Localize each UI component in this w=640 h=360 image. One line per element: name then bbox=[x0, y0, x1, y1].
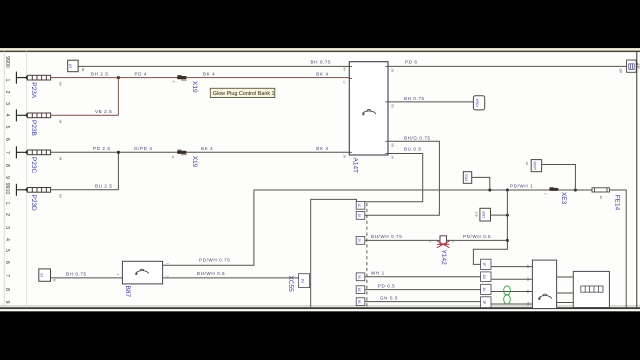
pin box 8S XC55 bbox=[356, 298, 365, 306]
svg-text:1B: 1B bbox=[526, 290, 530, 294]
pin box 5S XC55 bbox=[356, 273, 365, 281]
wire PD/WH 0.5 bbox=[447, 239, 508, 241]
diagram background bbox=[0, 48, 640, 311]
wire BH 0.75 top bbox=[78, 65, 349, 67]
svg-text:S015: S015 bbox=[481, 211, 485, 219]
svg-text:1M: 1M bbox=[619, 68, 623, 73]
svg-text:4: 4 bbox=[4, 238, 10, 241]
svg-text:FE14: FE14 bbox=[614, 195, 621, 211]
svg-text:32B: 32B bbox=[474, 212, 478, 217]
top letterbox bar bbox=[0, 0, 640, 48]
svg-text:1M: 1M bbox=[482, 274, 486, 279]
wire BU 2.5 row D bbox=[51, 189, 119, 191]
svg-text:PD 2.5: PD 2.5 bbox=[93, 146, 111, 151]
A14T pin ticks left bbox=[349, 66, 388, 153]
node glow plug C feed bbox=[26, 150, 30, 154]
svg-text:5: 5 bbox=[4, 249, 10, 252]
svg-text:P23C: P23C bbox=[30, 157, 37, 174]
svg-text:VB 2.5: VB 2.5 bbox=[95, 109, 112, 114]
node main junction 1 bbox=[488, 189, 491, 192]
svg-text:11: 11 bbox=[171, 156, 175, 159]
ECU A14T bbox=[349, 62, 388, 155]
splice W005 bbox=[531, 160, 541, 172]
wire relay to connector 3 bbox=[557, 302, 574, 304]
wire VB 2.5 row B bbox=[51, 114, 119, 116]
glow plug P23C bbox=[27, 150, 50, 155]
svg-text:6: 6 bbox=[4, 261, 10, 264]
wire PD/WH 0.75 bbox=[163, 190, 254, 265]
svg-text:3: 3 bbox=[4, 226, 10, 229]
svg-text:PD 6: PD 6 bbox=[405, 60, 418, 65]
svg-text:1M: 1M bbox=[59, 156, 63, 161]
svg-text:BH/WH 0.75: BH/WH 0.75 bbox=[371, 234, 402, 239]
wire BH/WH 0.5 bbox=[163, 277, 299, 279]
connector block bottom right bbox=[573, 271, 609, 307]
wire BH 2.5 / PD 4 / BK 4 row A bbox=[51, 78, 350, 116]
svg-text:2B: 2B bbox=[391, 69, 395, 73]
relay module bottom right bbox=[532, 260, 556, 308]
svg-text:3B: 3B bbox=[526, 277, 530, 281]
svg-text:1: 1 bbox=[4, 79, 10, 82]
splice W004 bbox=[473, 96, 484, 110]
svg-text:9: 9 bbox=[4, 176, 10, 179]
frame bottom faint line bbox=[0, 305, 640, 308]
svg-text:W005: W005 bbox=[533, 162, 537, 171]
connector XC55 dashed line bbox=[366, 203, 368, 307]
glow plug P23D bbox=[27, 188, 50, 193]
ground terminal P23C bbox=[16, 146, 27, 158]
wire PD 2.5 / G-PD 4 / BK 4 row C bbox=[51, 152, 350, 190]
svg-text:1M: 1M bbox=[59, 194, 63, 199]
svg-text:8S: 8S bbox=[357, 300, 361, 304]
pin box 1M XC55 left bbox=[299, 274, 310, 288]
tooltip Glow Plug Control Bank 1 bbox=[210, 88, 274, 97]
node main junction 3 bbox=[574, 189, 577, 192]
svg-text:B87: B87 bbox=[124, 286, 131, 298]
pin box 6S XC55 bbox=[356, 286, 365, 294]
svg-text:8: 8 bbox=[4, 288, 10, 291]
ground terminal P23D bbox=[16, 184, 27, 196]
svg-text:6S: 6S bbox=[357, 288, 361, 292]
wire BH/G 0.75 bbox=[365, 141, 440, 215]
svg-text:1N: 1N bbox=[343, 154, 347, 158]
frame top cream band bbox=[0, 48, 640, 50]
svg-text:P23D: P23D bbox=[30, 195, 37, 212]
svg-text:S013: S013 bbox=[464, 174, 468, 182]
svg-text:2S: 2S bbox=[357, 238, 361, 242]
ground terminal P23A bbox=[16, 72, 27, 84]
svg-text:BK 4: BK 4 bbox=[201, 146, 213, 151]
wire WH 1 bbox=[365, 276, 481, 278]
wire relay to connector 1 bbox=[557, 276, 574, 278]
svg-text:BH/WH 0.5: BH/WH 0.5 bbox=[197, 271, 225, 276]
svg-text:9900: 9900 bbox=[4, 56, 10, 68]
splice S013 bbox=[463, 172, 471, 184]
splice S15 bbox=[480, 208, 491, 221]
svg-text:BK 4: BK 4 bbox=[203, 71, 215, 76]
svg-text:3: 3 bbox=[4, 102, 10, 105]
svg-text:6: 6 bbox=[4, 138, 10, 141]
svg-text:1M: 1M bbox=[301, 278, 305, 283]
wire W005 drop bbox=[542, 165, 576, 191]
splice G5 bbox=[68, 60, 78, 71]
svg-text:1E: 1E bbox=[525, 162, 529, 166]
connector X19 row A bbox=[177, 75, 187, 80]
svg-text:1: 1 bbox=[4, 202, 10, 205]
svg-text:G5: G5 bbox=[68, 64, 72, 68]
connector XE3 bbox=[549, 187, 558, 191]
svg-text:9910: 9910 bbox=[4, 183, 10, 195]
wire pins to relay 3 bbox=[491, 291, 532, 293]
fuse FE14 bbox=[592, 188, 609, 192]
node Y142 junction bbox=[506, 239, 509, 242]
svg-text:W004: W004 bbox=[475, 99, 479, 108]
svg-text:PD 0.5: PD 0.5 bbox=[378, 283, 396, 288]
svg-text:2: 2 bbox=[4, 213, 10, 216]
svg-text:S3: S3 bbox=[40, 273, 44, 277]
wire PD/WH drop to pins bbox=[473, 190, 507, 264]
wire PD 6 bbox=[388, 65, 627, 67]
svg-text:7: 7 bbox=[4, 151, 10, 154]
svg-text:GN 0.5: GN 0.5 bbox=[380, 295, 398, 300]
svg-text:BK 4: BK 4 bbox=[316, 146, 328, 151]
svg-text:1F: 1F bbox=[482, 262, 486, 266]
connector X19 row C bbox=[177, 150, 187, 155]
wire pins to relay 1 bbox=[491, 266, 532, 268]
svg-text:BH 0.75: BH 0.75 bbox=[404, 96, 425, 101]
node main junction 2 bbox=[506, 189, 509, 192]
svg-text:7: 7 bbox=[4, 274, 10, 277]
frame left inner faint line bbox=[25, 51, 28, 308]
wire relay to connector 2 bbox=[557, 292, 574, 294]
wire BU 0.5 bbox=[365, 154, 423, 202]
ground terminal P23B bbox=[16, 109, 27, 121]
svg-text:1P: 1P bbox=[482, 300, 486, 304]
node S15 junction bbox=[506, 214, 509, 217]
ruler digits lower bbox=[4, 202, 10, 304]
connector XC55 line bbox=[309, 199, 312, 307]
valve Y142 bbox=[437, 236, 450, 248]
glow plug P23B bbox=[27, 113, 50, 118]
svg-text:9B: 9B bbox=[391, 143, 395, 147]
svg-text:5: 5 bbox=[4, 126, 10, 129]
pin box 1P column right bbox=[481, 297, 491, 308]
frame bottom line bbox=[0, 307, 640, 309]
svg-text:3H: 3H bbox=[391, 156, 395, 160]
svg-text:1M: 1M bbox=[81, 67, 85, 72]
svg-text:PD 4: PD 4 bbox=[135, 71, 148, 76]
svg-text:5S: 5S bbox=[357, 275, 361, 279]
twisted pair marker green bbox=[504, 286, 511, 304]
svg-text:1N: 1N bbox=[482, 287, 486, 292]
pin box 1C XC55 bbox=[356, 201, 365, 209]
node glow plug B feed bbox=[26, 113, 30, 117]
svg-text:1S: 1S bbox=[357, 213, 361, 217]
svg-text:P23A: P23A bbox=[30, 82, 37, 99]
svg-text:X19: X19 bbox=[191, 81, 198, 93]
wire GN 0.5 bbox=[365, 301, 481, 303]
svg-text:XE3: XE3 bbox=[560, 192, 567, 205]
sensor B87 bbox=[122, 261, 162, 284]
node glow plug A feed bbox=[26, 76, 30, 80]
battery feed box top right bbox=[627, 60, 637, 72]
wire PD/WH 1 main bbox=[254, 189, 592, 191]
svg-text:PD/WH 0.5: PD/WH 0.5 bbox=[463, 234, 491, 239]
pin box 1N column right bbox=[481, 284, 491, 294]
svg-text:PD/WH 1: PD/WH 1 bbox=[510, 184, 533, 189]
svg-text:9: 9 bbox=[4, 301, 10, 304]
svg-text:BU 2.5: BU 2.5 bbox=[95, 184, 113, 189]
svg-text:BH 0.75: BH 0.75 bbox=[66, 271, 87, 276]
svg-text:8A: 8A bbox=[599, 196, 603, 200]
svg-text:8: 8 bbox=[4, 164, 10, 167]
bottom letterbox bar bbox=[0, 311, 640, 360]
svg-text:G/PD 4: G/PD 4 bbox=[134, 146, 153, 151]
svg-text:4B: 4B bbox=[526, 265, 530, 269]
wire pins to relay 4 bbox=[491, 303, 532, 305]
svg-text:8A: 8A bbox=[343, 68, 347, 72]
svg-text:1C: 1C bbox=[357, 203, 361, 208]
pin box 2S XC55 bbox=[356, 237, 365, 245]
wire after fuse to bottom bbox=[609, 190, 626, 307]
frame top line bbox=[0, 51, 640, 53]
svg-text:Y142: Y142 bbox=[440, 250, 447, 266]
wire XC55 continuation left bbox=[311, 199, 357, 201]
svg-text:PD/WH 0.75: PD/WH 0.75 bbox=[199, 258, 230, 263]
wire PD 0.5 bbox=[365, 289, 481, 291]
svg-text:P23B: P23B bbox=[30, 120, 37, 136]
svg-text:1M: 1M bbox=[59, 82, 63, 87]
svg-text:4: 4 bbox=[4, 114, 10, 117]
svg-text:Glow Plug Control Bank 1: Glow Plug Control Bank 1 bbox=[213, 91, 275, 97]
svg-text:BK 4: BK 4 bbox=[316, 71, 328, 76]
frame right border bbox=[636, 51, 637, 310]
ruler digits upper bbox=[4, 79, 10, 180]
pin box 1S XC55 bbox=[356, 212, 365, 220]
pin box 1F column right bbox=[481, 259, 491, 269]
wire pins to relay 2 bbox=[491, 278, 532, 280]
svg-text:BH 0.75: BH 0.75 bbox=[311, 59, 332, 64]
svg-text:WH 1: WH 1 bbox=[371, 270, 385, 275]
node glow plug D feed bbox=[26, 188, 30, 192]
svg-text:2: 2 bbox=[4, 91, 10, 94]
svg-text:5B: 5B bbox=[391, 104, 395, 108]
wire S15 to PD/WH drop bbox=[491, 214, 508, 216]
node junction rows C-D bbox=[117, 151, 120, 154]
node junction rows A-B bbox=[117, 76, 120, 79]
relay symbol inside A14T bbox=[362, 109, 376, 115]
wire BH 0.75 right bbox=[388, 101, 473, 103]
pin box 1M column right bbox=[481, 272, 491, 282]
svg-text:BU 0.5: BU 0.5 bbox=[404, 147, 422, 152]
wire S013 drop bbox=[472, 177, 490, 190]
wire BH 0.75 to B87 bbox=[51, 277, 123, 279]
wire BH/WH 0.75 to Y142 bbox=[365, 239, 440, 241]
frame left faint line bbox=[3, 51, 6, 308]
svg-text:5B: 5B bbox=[526, 302, 530, 306]
svg-text:1M: 1M bbox=[59, 119, 63, 124]
svg-text:BH 2.5: BH 2.5 bbox=[91, 72, 109, 77]
splice S3 bbox=[39, 269, 51, 281]
svg-text:X19: X19 bbox=[191, 156, 198, 168]
svg-text:BH/G 0.75: BH/G 0.75 bbox=[404, 135, 431, 140]
svg-text:A14T: A14T bbox=[352, 158, 359, 174]
glow plug P23A bbox=[27, 75, 50, 80]
